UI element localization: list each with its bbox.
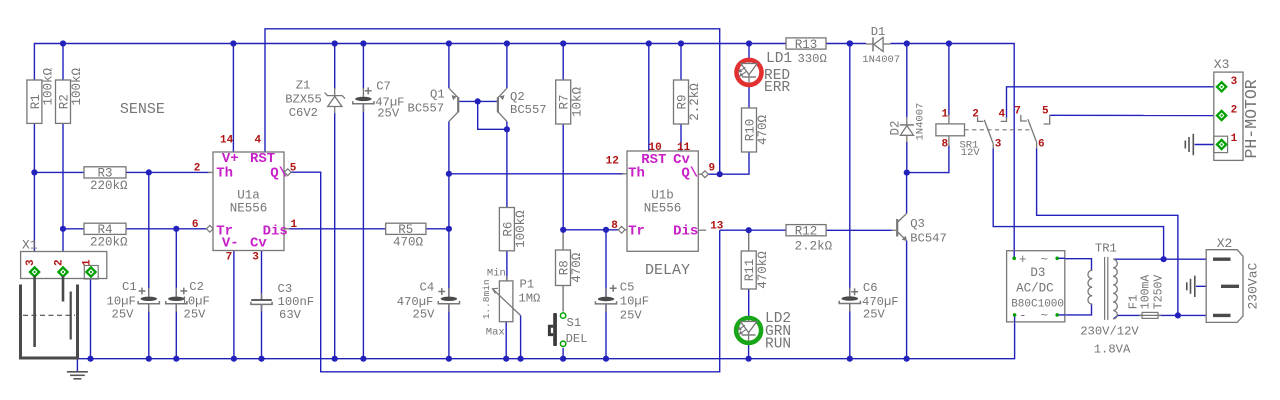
wire: D2 bottom to coil node bbox=[906, 142, 908, 173]
junction R7/R8/pin8 bbox=[560, 227, 566, 233]
label LD2 bbox=[765, 311, 791, 353]
U1b pin names bbox=[628, 152, 698, 240]
probe electrode 3 bbox=[33, 276, 36, 347]
D3 labels bbox=[1011, 253, 1064, 323]
svg-text:1: 1 bbox=[291, 219, 298, 231]
wire: R6 to P1 bbox=[506, 251, 508, 281]
svg-text:Q1: Q1 bbox=[430, 88, 445, 102]
svg-text:ERR: ERR bbox=[764, 80, 790, 96]
label PH-MOTOR bbox=[1242, 79, 1261, 158]
label P1 bbox=[518, 278, 540, 306]
wire: LD2 bottom to ground rail bbox=[748, 343, 750, 359]
junction C2/Tr bbox=[173, 226, 179, 232]
connector X1 bbox=[21, 252, 107, 280]
switch S1 bbox=[549, 313, 557, 346]
wire: TR1 secondary bottom to X2 pin 3 bbox=[1114, 315, 1214, 318]
svg-text:25V: 25V bbox=[184, 308, 207, 322]
wire: U1b Th pin12 bbox=[449, 173, 624, 175]
value C7 bbox=[375, 95, 404, 120]
svg-text:10µF: 10µF bbox=[107, 295, 136, 309]
X3 pin 3 bbox=[1217, 82, 1226, 91]
X1 pin 2 bbox=[58, 267, 67, 276]
value C4 bbox=[397, 295, 435, 322]
svg-text:8: 8 bbox=[942, 139, 949, 151]
svg-text:Dis: Dis bbox=[673, 224, 698, 240]
label X1 bbox=[22, 238, 38, 253]
svg-text:1: 1 bbox=[942, 109, 949, 121]
bridge rectifier D3 bbox=[1007, 251, 1065, 322]
svg-text:1.8VA: 1.8VA bbox=[1094, 343, 1131, 357]
svg-text:3: 3 bbox=[995, 139, 1002, 151]
svg-text:8: 8 bbox=[611, 220, 618, 232]
resistor R1 bbox=[27, 67, 56, 123]
wire: +V top rail bbox=[34, 44, 786, 81]
svg-text:25V: 25V bbox=[863, 307, 886, 321]
svg-text:T250V: T250V bbox=[1153, 275, 1166, 310]
svg-text:330Ω: 330Ω bbox=[798, 52, 827, 66]
label Q1 bbox=[408, 88, 445, 116]
ground symbol (tank) bbox=[67, 360, 88, 379]
pin 14 label bbox=[220, 135, 234, 147]
label C2 bbox=[180, 280, 204, 294]
junction R2/R4 bbox=[60, 226, 66, 232]
wire: S1 bottom to ground rail bbox=[562, 348, 564, 359]
wire: X1 pin 1 to ground rail bbox=[90, 277, 92, 359]
transformer TR1 bbox=[1088, 257, 1117, 320]
relay pin 3 label bbox=[995, 139, 1002, 151]
wire: Q2 emitter to rail bbox=[506, 44, 508, 89]
label 1..8min bbox=[481, 279, 492, 319]
svg-text:100kΩ: 100kΩ bbox=[514, 210, 528, 248]
value C3 bbox=[278, 295, 315, 322]
relay contact A bbox=[978, 117, 994, 148]
X3 pin 2 bbox=[1217, 111, 1226, 120]
svg-text:C7: C7 bbox=[376, 80, 391, 94]
wire: C2 bottom bbox=[175, 304, 177, 359]
wire: Q2 collector to R6 bbox=[506, 121, 508, 207]
svg-text:P1: P1 bbox=[520, 278, 535, 292]
svg-text:SENSE: SENSE bbox=[120, 101, 165, 118]
svg-text:X1: X1 bbox=[22, 238, 38, 253]
op-amp/timer U1a NE556 bbox=[213, 152, 284, 251]
label D2 bbox=[889, 120, 903, 135]
X1 pin digits bbox=[25, 259, 93, 266]
probe electrode 2 bbox=[62, 276, 65, 302]
wire: TR1 secondary top to X2 pin 1 bbox=[1114, 258, 1214, 260]
capacitor C5 bbox=[595, 288, 616, 312]
wire: D3 AC top to TR1 bbox=[1057, 259, 1091, 271]
svg-text:TR1: TR1 bbox=[1095, 241, 1117, 255]
wire: relay coil pin 1 to rail bbox=[948, 44, 950, 116]
pin 1 label bbox=[291, 219, 298, 231]
wire: R11 bottom to LD2 bbox=[748, 289, 750, 318]
resistor R5 bbox=[386, 223, 426, 249]
U1a pin names bbox=[216, 151, 288, 252]
U1a Q inversion dot bbox=[284, 169, 291, 176]
wire: C1 top bbox=[148, 172, 150, 296]
U1a pin stubs bbox=[208, 172, 290, 228]
label C4 bbox=[420, 281, 446, 295]
svg-text:25V: 25V bbox=[413, 308, 436, 322]
svg-text:1MΩ: 1MΩ bbox=[518, 292, 540, 306]
svg-text:7: 7 bbox=[1014, 106, 1021, 118]
junction fuse/X2 bbox=[1175, 312, 1181, 318]
wire: U1a pin 7 to ground rail bbox=[233, 251, 235, 359]
X1 pin 1 bbox=[86, 267, 95, 276]
pin 8 label bbox=[611, 220, 618, 232]
svg-text:6: 6 bbox=[1038, 139, 1045, 151]
transistor Q3 bbox=[892, 214, 907, 242]
svg-text:BC547: BC547 bbox=[910, 232, 947, 246]
svg-text:U1a: U1a bbox=[237, 189, 260, 203]
pin 7 label bbox=[226, 251, 233, 263]
svg-text:RUN: RUN bbox=[765, 337, 791, 353]
svg-text:DELAY: DELAY bbox=[645, 262, 690, 279]
junction Q1 bases bbox=[475, 98, 481, 104]
wire: R5 right lead bbox=[426, 228, 449, 230]
svg-text:R13: R13 bbox=[795, 38, 818, 52]
wire: Z1 column bottom bbox=[334, 113, 336, 359]
svg-text:25V: 25V bbox=[112, 308, 135, 322]
wire: R2 bottom to X1 pin 2 bbox=[62, 123, 64, 269]
fuse F1 bbox=[1139, 312, 1161, 318]
X1 pin 3 bbox=[30, 267, 39, 276]
svg-text:14: 14 bbox=[220, 135, 234, 147]
label Min bbox=[487, 268, 506, 280]
wire: R11 top lead bbox=[748, 230, 750, 251]
svg-text:~: ~ bbox=[1041, 253, 1049, 267]
relay pin 8 label bbox=[942, 139, 949, 151]
svg-text:63V: 63V bbox=[279, 308, 302, 322]
label X2 bbox=[1217, 236, 1233, 251]
svg-text:220kΩ: 220kΩ bbox=[90, 179, 128, 193]
svg-text:Q\: Q\ bbox=[270, 166, 287, 182]
relay pin 2 label bbox=[972, 109, 979, 121]
svg-text:2.2kΩ: 2.2kΩ bbox=[688, 83, 702, 121]
capacitor C7 bbox=[353, 88, 374, 112]
svg-text:3: 3 bbox=[1231, 76, 1238, 88]
svg-text:100kΩ: 100kΩ bbox=[42, 67, 56, 105]
svg-text:3: 3 bbox=[252, 251, 259, 263]
junction pin9/R10/link bbox=[717, 171, 723, 177]
svg-text:10µF: 10µF bbox=[181, 295, 210, 309]
wire: D2 top bbox=[906, 44, 908, 118]
svg-text:1N4007: 1N4007 bbox=[862, 54, 900, 66]
svg-text:1: 1 bbox=[81, 259, 93, 266]
transistor Q2 bbox=[498, 88, 507, 121]
U1a Tr inversion dot bbox=[206, 225, 213, 232]
junction R5/C4/collector bbox=[446, 226, 452, 232]
transistor Q1 bbox=[449, 88, 458, 121]
wire: U1b pin 10 to rail bbox=[648, 44, 650, 152]
svg-text:Min: Min bbox=[487, 268, 506, 280]
resistor R3 bbox=[84, 167, 128, 193]
junction Q1 collector/pin12 bbox=[446, 171, 452, 177]
pin 12 label bbox=[606, 156, 619, 168]
wire: R2 top bbox=[62, 44, 64, 81]
svg-text:C5: C5 bbox=[620, 281, 635, 295]
label C5 bbox=[610, 281, 635, 295]
wire: R10 bottom to pin9 node bbox=[720, 152, 749, 174]
label Max bbox=[486, 327, 505, 339]
junction C1/Th bbox=[146, 169, 152, 175]
label X3 bbox=[1214, 57, 1230, 72]
svg-text:-: - bbox=[1019, 309, 1027, 323]
junction dots on +V rail bbox=[60, 40, 952, 46]
pin 5 label bbox=[290, 163, 297, 175]
X2 pin 1 bbox=[1213, 258, 1231, 261]
junction R1/R3 bbox=[31, 169, 37, 175]
wire: LD1 top to rail bbox=[748, 44, 750, 61]
wire: relay pin 3 to TR1 primary top bbox=[993, 149, 1163, 260]
junction D2/coil/Q3 bbox=[904, 170, 910, 176]
connector X2 bbox=[1206, 250, 1243, 323]
svg-text:D2: D2 bbox=[889, 120, 903, 135]
wire: U1b Q pin9 to junction bbox=[708, 173, 719, 175]
svg-text:~: ~ bbox=[1041, 309, 1049, 323]
svg-text:470Ω: 470Ω bbox=[393, 235, 424, 249]
svg-text:BZX55: BZX55 bbox=[285, 93, 322, 107]
svg-text:Q3: Q3 bbox=[910, 217, 925, 231]
svg-text:12: 12 bbox=[606, 156, 619, 168]
svg-text:230VaC: 230VaC bbox=[1246, 262, 1261, 309]
wire: ground to X2 pin 2 bbox=[1196, 285, 1222, 287]
svg-text:25V: 25V bbox=[620, 309, 643, 323]
water tank bbox=[21, 285, 78, 359]
wire: C5 top bbox=[605, 230, 607, 297]
value C2 bbox=[181, 295, 210, 322]
wire: C3 bottom bbox=[261, 305, 263, 359]
pin 4 label bbox=[255, 135, 262, 147]
wire: U1a Q pin5 to U1b Dis (bottom link) bbox=[291, 172, 720, 372]
svg-text:1N4007: 1N4007 bbox=[915, 103, 927, 141]
svg-text:100kΩ: 100kΩ bbox=[70, 67, 84, 105]
wire: R3 to U1a Th bbox=[126, 171, 210, 173]
junction TR1 primary top bbox=[1161, 256, 1167, 262]
svg-text:V-: V- bbox=[222, 236, 239, 252]
svg-text:6: 6 bbox=[192, 219, 199, 231]
ground symbol (X2) bbox=[1187, 276, 1195, 297]
svg-text:100nF: 100nF bbox=[278, 295, 315, 309]
X3 pin digits bbox=[1231, 76, 1238, 145]
X2 pin 2 bbox=[1221, 285, 1239, 288]
label Q3 bbox=[910, 217, 947, 246]
svg-text:230V/12V: 230V/12V bbox=[1080, 325, 1139, 339]
svg-text:4: 4 bbox=[255, 135, 262, 147]
label C3 bbox=[278, 282, 293, 296]
svg-text:PH-MOTOR: PH-MOTOR bbox=[1242, 79, 1261, 158]
value R13 330ohm bbox=[798, 52, 827, 66]
svg-text:C6V2: C6V2 bbox=[289, 106, 318, 120]
svg-text:Z1: Z1 bbox=[296, 79, 311, 93]
wire: C6 top bbox=[849, 44, 851, 297]
svg-text:25V: 25V bbox=[377, 107, 400, 121]
svg-text:X2: X2 bbox=[1217, 236, 1233, 251]
relay pin 7 label bbox=[1014, 106, 1021, 118]
connector X3 bbox=[1214, 72, 1243, 160]
wire: R3 left lead bbox=[34, 171, 84, 173]
wire: LD1 to R10 bbox=[748, 85, 750, 108]
svg-text:NE556: NE556 bbox=[644, 202, 682, 216]
LED LD1 bbox=[737, 60, 762, 85]
wire: rail R13 to D1 bbox=[826, 43, 866, 45]
value C6 bbox=[862, 295, 899, 322]
svg-text:2.2kΩ: 2.2kΩ bbox=[795, 240, 833, 254]
svg-text:F1: F1 bbox=[1126, 295, 1140, 310]
relay pin 5 label bbox=[1042, 106, 1049, 118]
value F1 bbox=[1139, 275, 1165, 310]
svg-text:470Ω: 470Ω bbox=[570, 252, 584, 283]
svg-text:X3: X3 bbox=[1214, 57, 1230, 72]
wire: R4 left lead bbox=[63, 228, 84, 230]
pin 3 label bbox=[252, 251, 259, 263]
svg-text:D3: D3 bbox=[1030, 266, 1045, 280]
U1b Tr inversion dot bbox=[618, 226, 625, 233]
wire: C4 bottom bbox=[448, 304, 450, 359]
label SENSE bbox=[120, 101, 165, 118]
svg-text:C3: C3 bbox=[278, 282, 293, 296]
svg-text:1..8min: 1..8min bbox=[481, 279, 492, 319]
wire: relay pin 4 to X3 pin 3 bbox=[1007, 87, 1218, 118]
U1b Q inversion dot bbox=[702, 171, 709, 178]
relay pin 6 label bbox=[1038, 139, 1045, 151]
svg-text:12V: 12V bbox=[961, 147, 981, 159]
wire: R8 bottom to S1 bbox=[562, 286, 564, 312]
svg-text:470Ω: 470Ω bbox=[756, 115, 770, 146]
wire: R4 to U1a Tr bbox=[126, 228, 207, 230]
wire: C5 bottom bbox=[605, 304, 607, 359]
value TR1 bbox=[1080, 325, 1139, 357]
pin 11 label bbox=[677, 142, 691, 154]
capacitor C3 bbox=[251, 293, 272, 311]
relay pin 4 label bbox=[999, 109, 1006, 121]
wire: relay coil pin 8 to Q3 collector node bbox=[907, 146, 949, 173]
svg-text:7: 7 bbox=[226, 251, 233, 263]
resistor R11 bbox=[741, 251, 770, 289]
label 230VAC bbox=[1246, 262, 1261, 309]
resistor R8 bbox=[556, 250, 585, 286]
svg-text:2: 2 bbox=[194, 163, 201, 175]
junction C5/pin8 bbox=[603, 227, 609, 233]
svg-text:C2: C2 bbox=[189, 280, 204, 294]
wire: base tie-down to Q2 collector bbox=[478, 101, 507, 129]
junction Q2 collector/base bbox=[504, 126, 510, 132]
wire: C6 bottom bbox=[849, 304, 851, 359]
resistor R12 bbox=[786, 225, 833, 254]
value C1 bbox=[107, 295, 136, 322]
svg-text:3: 3 bbox=[25, 259, 37, 266]
junction dots on ground rail bbox=[87, 356, 909, 362]
label TR1 bbox=[1095, 241, 1117, 255]
label Q2 bbox=[510, 90, 547, 117]
svg-text:Max: Max bbox=[486, 327, 505, 339]
label Z1 bbox=[296, 79, 311, 93]
svg-text:RST: RST bbox=[250, 151, 275, 167]
svg-text:2: 2 bbox=[972, 109, 979, 121]
wire: U1a pin 14 to rail bbox=[232, 44, 234, 153]
svg-text:R12: R12 bbox=[795, 225, 818, 239]
wire: U1a Dis pin1 to R5 bbox=[290, 228, 386, 230]
X3 pin 1 bbox=[1217, 140, 1226, 149]
resistor R13 bbox=[786, 38, 826, 52]
svg-text:Th: Th bbox=[216, 166, 233, 182]
wire: Z1 column top bbox=[334, 44, 336, 90]
junction C6/rail bbox=[847, 40, 853, 46]
resistor R7 bbox=[556, 80, 585, 124]
svg-text:100mA: 100mA bbox=[1139, 275, 1152, 310]
wire: R7 bottom bbox=[562, 124, 564, 230]
ground symbol (X3) bbox=[1185, 134, 1193, 155]
svg-text:2: 2 bbox=[53, 259, 65, 266]
wire: C7 column top bbox=[362, 44, 364, 90]
junction pin13/R11/R12 bbox=[746, 227, 752, 233]
wire: R9 bottom to U1b pin 11 bbox=[680, 124, 682, 151]
label C7 bbox=[365, 80, 391, 95]
capacitor C2 bbox=[166, 288, 187, 312]
wire: Q1 collector column to C4 bbox=[448, 121, 450, 296]
pin 10 label bbox=[649, 142, 662, 154]
wire: R8 top lead bbox=[562, 230, 564, 250]
svg-text:Cv: Cv bbox=[250, 236, 267, 252]
wire: C1 bottom bbox=[148, 304, 150, 359]
relay dashed link bbox=[965, 129, 1031, 131]
svg-text:10µF: 10µF bbox=[620, 294, 649, 308]
label U1b bbox=[644, 189, 682, 216]
wire: Q3 collector bbox=[906, 173, 908, 214]
svg-text:+: + bbox=[1019, 253, 1027, 267]
svg-text:BC557: BC557 bbox=[510, 103, 547, 117]
wire: R9 top to rail bbox=[680, 44, 682, 81]
label C1 bbox=[122, 280, 145, 294]
svg-text:S1: S1 bbox=[567, 316, 582, 330]
wire: U1b Dis pin13 to R12 bbox=[720, 229, 786, 231]
resistor R4 bbox=[84, 223, 128, 249]
pin 6 label bbox=[192, 219, 199, 231]
value D2 bbox=[915, 103, 927, 141]
S1 pins bbox=[560, 313, 565, 347]
tank water level bbox=[23, 314, 75, 316]
label SR1 12V bbox=[960, 140, 981, 159]
U1b pin stubs bbox=[622, 174, 706, 230]
svg-text:BC557: BC557 bbox=[408, 102, 445, 116]
LED LD2 bbox=[736, 318, 761, 343]
wire: ground rail bbox=[78, 315, 1015, 359]
svg-text:V+: V+ bbox=[222, 151, 239, 167]
wire: U1b Tr pin8 wire bbox=[563, 229, 618, 231]
wire: ground to X3 pin 1 bbox=[1195, 144, 1217, 146]
wire: R1 bottom to X1 pin 3 bbox=[33, 123, 35, 269]
wire: U1a RST pin4 to U1b Q out (top link) bbox=[265, 29, 720, 174]
wire: relay pin 6 to fuse node bbox=[1037, 149, 1178, 316]
svg-text:C1: C1 bbox=[122, 280, 137, 294]
capacitor C4 bbox=[438, 288, 459, 312]
label LD1 RED ERR bbox=[764, 68, 790, 96]
label U1a bbox=[230, 189, 268, 216]
wire: Q3 emitter to ground rail bbox=[906, 241, 908, 359]
resistor R2 bbox=[56, 67, 85, 123]
svg-text:Th: Th bbox=[628, 166, 645, 182]
relay contact B bbox=[1001, 115, 1050, 149]
resistor R10 bbox=[742, 108, 771, 152]
probe electrode common bbox=[70, 292, 72, 340]
svg-text:LD1: LD1 bbox=[766, 51, 792, 67]
label S1 bbox=[566, 316, 588, 346]
svg-text:9: 9 bbox=[709, 163, 716, 175]
op-amp/timer U1b NE556 bbox=[627, 151, 698, 251]
wire: R12 to Q3 base bbox=[826, 229, 892, 231]
label F1 bbox=[1126, 295, 1140, 310]
wire: C7 column bottom bbox=[362, 105, 364, 359]
